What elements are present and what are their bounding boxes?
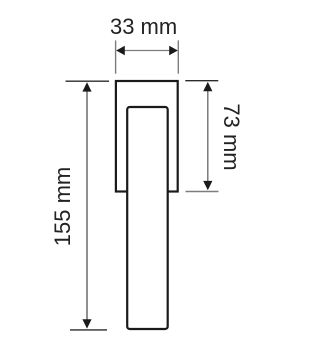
- svg-text:73 mm: 73 mm: [219, 103, 244, 170]
- svg-text:155 mm: 155 mm: [50, 167, 75, 246]
- svg-text:33 mm: 33 mm: [110, 14, 177, 39]
